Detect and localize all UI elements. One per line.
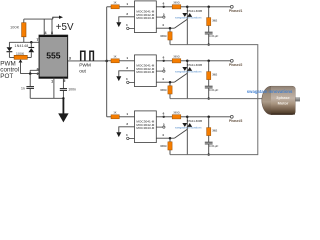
resistor R2a 1K (opto LED series) [111,55,119,62]
wire: PWM distribution bus [106,7,108,117]
resistor R2c 360 ohm pulldown [160,82,172,98]
svg-text:360Ω: 360Ω [173,56,179,59]
capacitor C3s 0.01uF snubber [205,136,219,155]
resistor R3c 360 ohm pulldown [160,138,172,154]
svg-text:BTA41-600B: BTA41-600B [187,9,202,13]
motor M1 3-phase (shaft) [295,98,300,102]
wire: 555 pin 1 down [53,78,55,99]
wire: opto pin 6 to R1b [156,6,172,8]
junction PWM bus [105,60,108,63]
wire: R1a to opto pin 1 [119,6,134,8]
svg-text:0.01µF: 0.01µF [209,144,219,148]
svg-text:0.01µF: 0.01µF [209,34,219,38]
junction pin4 / R1c [169,27,172,30]
junction pin4 / R3c [169,137,172,140]
wire: gate diagonal to triac T3 [174,129,187,138]
svg-text:360Ω: 360Ω [160,88,166,92]
wire: R3a to opto pin 1 [119,116,134,118]
svg-text:1K: 1K [113,1,116,4]
opto-coupler U1 MOC3041-M box [135,1,157,33]
svg-text:39Ω: 39Ω [212,129,217,133]
wire: gate diagonal to triac T2 [174,73,187,82]
svg-text:39Ω: 39Ω [212,73,217,77]
ground symbol (arrow) [58,98,68,122]
svg-text:7: 7 [36,38,38,42]
wire: 555 PWM bus to R3a [107,116,111,118]
wire: channel 1 rail to motor [170,45,258,87]
potentiometer P1 100K [14,52,27,60]
junction snubber top [207,116,210,119]
wire: opto pin 2 to ground [119,71,135,77]
svg-text:3phase: 3phase [276,95,290,100]
wire: channel 2 rail to motor [170,98,264,100]
svg-text:MOC3043-M: MOC3043-M [136,70,154,74]
svg-text:1n: 1n [21,87,25,91]
wire: opto pin 2 to ground [119,17,135,23]
svg-text:100K: 100K [16,52,25,56]
wire: 555 PWM bus to R2a [107,60,111,62]
svg-text:swagatam innovations: swagatam innovations [175,16,202,20]
svg-text:3: 3 [69,56,71,60]
svg-text:1N4148: 1N4148 [14,44,28,48]
junction wiper / C1 [29,72,32,75]
wire: phase line to snubber and terminal [187,116,230,118]
terminal Phase#3 [229,115,243,123]
wire: wiper to 555 pins 6 and 2 [21,70,40,73]
wire: phase line to snubber and terminal [187,6,230,8]
IC U1 555 timer [39,35,68,78]
svg-text:+5V: +5V [56,22,74,33]
svg-text:100K: 100K [10,24,20,29]
opto pin 3 n.c. stub [127,27,135,29]
diode D1 1N4148 (left, cathode down) [7,42,13,57]
opto pin 3 n.c. stub [127,137,135,139]
opto-coupler U3 MOC3041-M box [135,111,157,143]
wire: R3b to triac MT2 node [181,116,188,118]
PWM square wave symbol [81,51,94,60]
junction snubber top [207,6,210,9]
svg-text:Motor: Motor [278,101,289,106]
wire: opto pin 4 to gate node [156,27,174,29]
capacitor C1s 0.01uF snubber [205,26,219,45]
wire: opto pin 6 to R2b [156,60,172,62]
svg-text:360Ω: 360Ω [160,34,166,38]
opto pin 5 n.c. stub [156,16,165,18]
wire: phase line to snubber and terminal [187,60,230,62]
svg-text:360Ω: 360Ω [173,112,179,115]
ground arrow (opto pin 2) [116,132,121,137]
wire: 555 pin 3 PWM output [68,60,107,62]
terminal Phase#1 [229,5,243,13]
opto-coupler U2 MOC3041-M box [135,55,157,87]
wire: opto pin 6 to R3b [156,116,172,118]
svg-text:1K: 1K [113,55,116,58]
resistor R1a 1K (opto LED series) [111,1,119,8]
diode D2 1N4148 (right, cathode up) [28,42,34,57]
triac T1 BTA41-600B [182,7,202,45]
wire: gate diagonal to triac T1 [174,19,187,28]
wire: +5V top rail [24,19,53,35]
wire: motor feed vertical [257,87,259,117]
resistor R1c 360 ohm pulldown [160,28,172,44]
svg-text:out: out [79,69,86,75]
svg-text:39Ω: 39Ω [212,19,217,23]
capacitor C2s 0.01uF snubber [205,80,219,99]
wire: opto pin 4 to gate node [156,81,174,83]
svg-text:4: 4 [45,31,47,35]
wire: channel 3 rail to motor [170,117,258,155]
svg-text:MOC3043-M: MOC3043-M [136,16,154,20]
svg-text:0.01µF: 0.01µF [209,88,219,92]
+5V supply arrow [53,16,74,34]
resistor R3a 1K (opto LED series) [111,111,119,118]
junction ground node [62,97,64,99]
svg-text:555: 555 [46,51,61,61]
junction snubber bottom [208,153,210,155]
junction triac MT2 / phase line [186,60,189,63]
junction triac MT2 / phase line [186,6,189,9]
svg-text:8: 8 [51,31,53,35]
junction pin6 [163,60,165,62]
resistor R3s 39 ohm snubber [207,117,218,136]
svg-text:BTA41-600B: BTA41-600B [187,119,202,123]
resistor R2s 39 ohm snubber [207,61,218,80]
wire: opto pin 4 to gate node [156,137,174,139]
junction diode D2 top [30,41,33,44]
svg-text:Phase#3: Phase#3 [229,119,243,123]
junction pin4 / R2c [169,81,172,84]
junction snubber top [207,60,210,63]
svg-text:BTA41-600B: BTA41-600B [187,63,202,67]
svg-text:POT: POT [0,73,13,80]
opto pin 3 n.c. stub [127,81,135,83]
junction triac MT2 / phase line [186,116,189,119]
triac T2 BTA41-600B [182,61,202,99]
junction snubber bottom [208,43,210,45]
svg-text:swagatam innovations: swagatam innovations [175,126,202,130]
triac T3 BTA41-600B [182,117,202,155]
svg-text:100n: 100n [68,88,76,92]
svg-text:PWM: PWM [79,62,91,68]
terminal Phase#2 [229,59,243,67]
svg-text:MOC3043-M: MOC3043-M [136,126,154,130]
wire: 555 PWM bus to R1a [107,6,111,8]
capacitor C1 1n [21,74,34,99]
svg-text:Phase#2: Phase#2 [229,63,243,67]
wire: ground rail under 555 [30,97,63,99]
wire: R2a to opto pin 1 [119,60,134,62]
svg-text:swagatam innovations: swagatam innovations [247,89,293,94]
svg-text:360Ω: 360Ω [160,144,166,148]
wire: pot rail [9,56,31,58]
junction pin6 [163,6,165,8]
junction snubber bottom [208,97,210,99]
svg-text:1: 1 [51,79,53,83]
svg-text:Phase#1: Phase#1 [229,9,243,13]
wire: pin 7 rail to diodes [9,41,39,43]
resistor R1s 39 ohm snubber [207,7,218,26]
wire: R1b to triac MT2 node [181,6,188,8]
capacitor C2 100n on pin 5 [60,78,76,99]
ground arrow (opto pin 2) [116,22,121,27]
svg-text:1K: 1K [113,111,116,114]
opto pin 5 n.c. stub [156,70,165,72]
motor M1 3-phase (body) [262,86,295,114]
resistor R2b 360 ohm gate series [172,56,181,63]
resistor R1b 360 ohm gate series [172,2,181,9]
svg-text:360Ω: 360Ω [173,2,179,5]
ground arrow (opto pin 2) [116,76,121,81]
junction pin6 [163,116,165,118]
resistor R3b 360 ohm gate series [172,112,181,119]
opto pin 5 n.c. stub [156,126,165,128]
pot wiper arrow [19,59,23,73]
svg-text:swagatam innovations: swagatam innovations [175,70,202,74]
resistor R1 100K (charge path) [10,19,26,42]
wire: opto pin 2 to ground [119,127,135,133]
wire: R2b to triac MT2 node [181,60,188,62]
